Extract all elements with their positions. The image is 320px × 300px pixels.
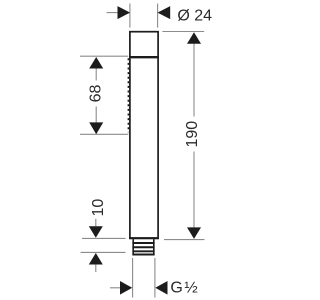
svg-text:Ø 24: Ø 24 xyxy=(177,7,212,24)
spray length 68 top extension line xyxy=(80,55,128,57)
thread length 10 label xyxy=(90,199,107,217)
spray length 68 dimension line upper xyxy=(95,69,97,81)
diameter extension line right xyxy=(157,4,159,28)
diameter arrow right xyxy=(158,6,171,19)
length 190 arrow up xyxy=(187,32,201,44)
spray length label 68 xyxy=(87,85,104,103)
length label 190 xyxy=(184,121,201,148)
thread length 10 stub above arrow xyxy=(95,219,97,227)
diameter arrow left xyxy=(118,6,131,19)
hand shower body outline xyxy=(130,32,158,239)
length 190 top extension line xyxy=(162,31,204,33)
body bottom thick line xyxy=(129,237,159,239)
length 190 bottom extension line xyxy=(164,239,205,241)
spray length 68 bottom extension line xyxy=(80,133,128,135)
spray face serrated edge xyxy=(127,58,129,132)
spray length 68 dimension line lower xyxy=(95,107,97,124)
thread section outline xyxy=(133,239,154,255)
length 190 dimension line lower xyxy=(193,152,195,229)
length 190 dimension line upper xyxy=(193,43,195,117)
svg-text:G½: G½ xyxy=(170,279,199,296)
thread bars xyxy=(132,243,154,255)
thread G 1/2 arrow left tail xyxy=(110,287,121,289)
thread length 10 arrow down xyxy=(89,226,103,238)
thread label G 1/2 xyxy=(170,279,199,296)
thread G 1/2 extension line left xyxy=(132,258,134,298)
thread length 10 arrow up xyxy=(89,253,103,265)
diameter arrow left tail xyxy=(107,12,119,14)
svg-text:10: 10 xyxy=(90,199,107,217)
thread length 10 stub below arrow xyxy=(95,265,97,273)
thread G 1/2 extension line right xyxy=(154,258,156,298)
diameter label Ø 24 xyxy=(177,7,212,24)
length 190 arrow down xyxy=(187,227,201,239)
svg-text:190: 190 xyxy=(184,121,201,148)
thread G 1/2 arrow right xyxy=(155,281,167,295)
spray length 68 arrow down xyxy=(89,122,103,134)
svg-text:68: 68 xyxy=(87,85,104,103)
thread length 10 top extension line xyxy=(82,237,126,239)
spray length 68 arrow up xyxy=(89,57,103,69)
diameter extension line left xyxy=(129,4,131,28)
cap separation line xyxy=(129,56,159,58)
thread length 10 bottom extension line xyxy=(81,251,126,253)
thread G 1/2 arrow left xyxy=(120,281,132,295)
